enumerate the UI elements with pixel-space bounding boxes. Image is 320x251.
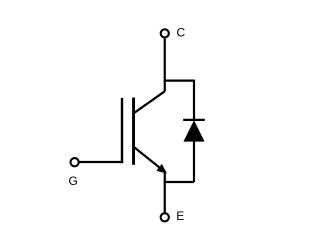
svg-text:G: G [69, 174, 78, 188]
wire diode branch lower vertical [193, 140, 195, 182]
wire bottom branch horizontal (diode anode to emitter node) [164, 181, 194, 183]
IGBT Q1 gate bar (left vertical plate) [121, 98, 123, 163]
svg-text:E: E [176, 209, 184, 223]
IGBT Q1 body bar (right vertical plate) [132, 98, 135, 165]
wire collector vertical (C terminal down to IGBT collector node) [164, 38, 166, 91]
wire emitter vertical (emitter node down to E terminal) [164, 171, 166, 213]
IGBT Q1 emitter lead diagonal with arrow [135, 148, 162, 170]
diode D1 cathode bar [183, 119, 205, 121]
wire top branch horizontal (collector node to diode cathode branch) [164, 79, 194, 81]
terminal C (open circle) [161, 29, 169, 37]
wire gate horizontal (G terminal to gate bar) [79, 161, 123, 163]
wire diode branch upper vertical [193, 80, 195, 121]
IGBT Q1 collector lead diagonal [134, 91, 164, 113]
terminal E (open circle) [161, 213, 169, 221]
svg-text:C: C [177, 26, 186, 40]
terminal G (open circle) [71, 158, 79, 166]
diode D1 anode triangle [184, 121, 204, 141]
